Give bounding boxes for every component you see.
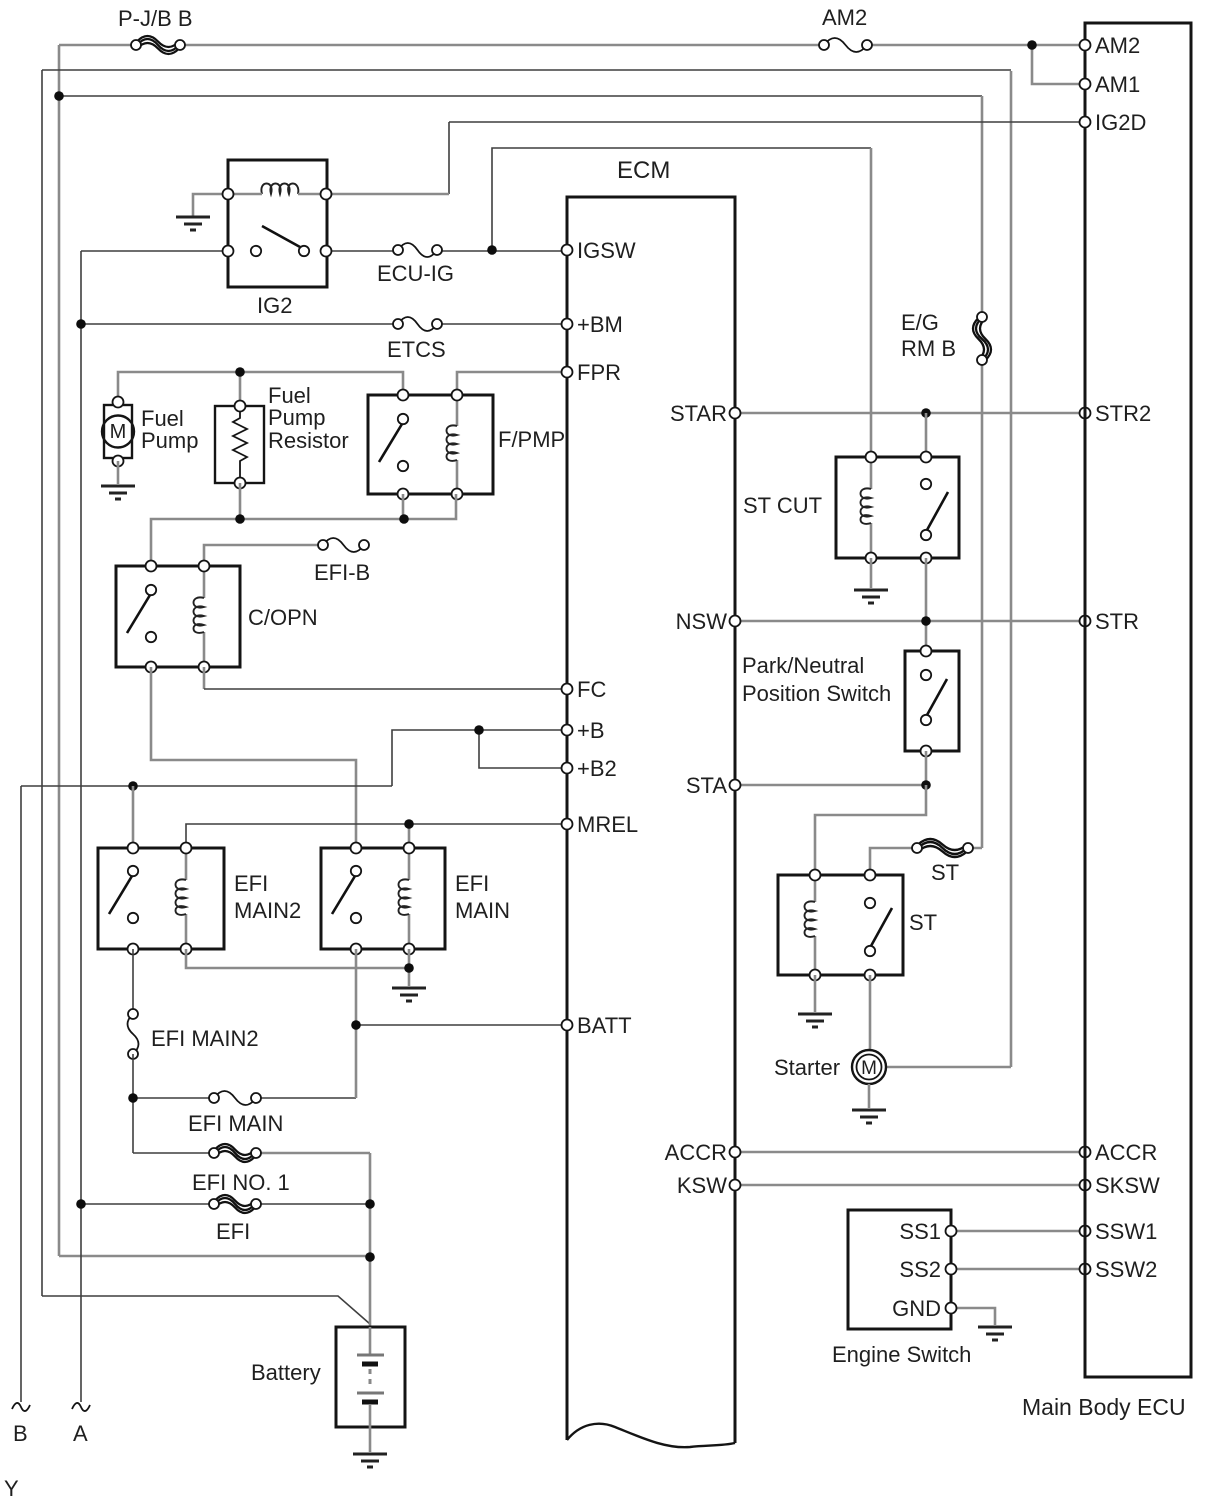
svg-text:MAIN: MAIN <box>455 898 510 923</box>
relay EFI MAIN terminals <box>351 843 362 854</box>
wire: E/G RM B vertical x=982 to ST fuse line <box>981 96 984 848</box>
svg-text:IGSW: IGSW <box>577 238 636 263</box>
junction dot BATT <box>351 1020 361 1030</box>
wire: left vertical x=21 down to break B <box>20 786 22 1402</box>
svg-text:FPR: FPR <box>577 360 621 385</box>
junction dot +B/+B2 <box>474 725 484 735</box>
svg-text:Battery: Battery <box>251 1360 321 1385</box>
terminal FPR <box>562 367 573 378</box>
svg-text:ACCR: ACCR <box>1095 1140 1157 1165</box>
junction dot MREL/EFI MAIN coil <box>404 819 414 829</box>
relay ST switch blade <box>871 908 892 946</box>
fuse EFI MAIN <box>209 1091 261 1105</box>
ECM box with torn bottom edge <box>567 197 735 1443</box>
svg-text:SS1: SS1 <box>899 1219 941 1244</box>
junction dot resistor top on FPR rail <box>235 367 245 377</box>
terminal SKSW <box>1080 1180 1091 1191</box>
wire: EFI-B stub from C/OPN coil top <box>204 545 323 566</box>
svg-text:+BM: +BM <box>577 312 623 337</box>
fuse ECU-IG <box>393 243 442 257</box>
wire: ACCR line y=1152 <box>735 1151 1085 1154</box>
wire: ST CUT switch bottom through NSW junction to P/N switch <box>925 558 928 651</box>
svg-text:ACCR: ACCR <box>665 1140 727 1165</box>
wire: SS2 line <box>951 1268 1085 1271</box>
svg-text:Resistor: Resistor <box>268 428 349 453</box>
wire: left vertical bus x=59 from P-J/B line down to battery line y=1256 <box>58 45 61 1256</box>
terminal SS2 <box>946 1264 957 1275</box>
wire: battery positive vertical x=370 <box>369 1153 372 1327</box>
svg-text:EFI-B: EFI-B <box>314 560 370 585</box>
wire: F/PMP coil top to FPR terminal <box>457 372 567 395</box>
wire: F/PMP switch bottom stub <box>402 494 405 519</box>
relay EFI MAIN2 terminals <box>128 843 139 854</box>
svg-text:SSW2: SSW2 <box>1095 1257 1157 1282</box>
wire: GND lead <box>951 1308 995 1325</box>
svg-text:EFI NO. 1: EFI NO. 1 <box>192 1170 290 1195</box>
wire: ST relay switch top to ST fusible link <box>870 848 982 875</box>
svg-text:Engine Switch: Engine Switch <box>832 1342 971 1367</box>
terminal STR2 <box>1080 408 1091 419</box>
wire: EFI MAIN coil top stub <box>408 824 411 848</box>
relay F/PMP box <box>368 395 493 494</box>
wire: ST switch to starter motor <box>869 975 872 1050</box>
svg-text:Y: Y <box>4 1476 19 1498</box>
wire: x=133 vertical from fuse to EFI NO.1 line <box>132 1054 134 1153</box>
terminal IGSW <box>562 245 573 256</box>
svg-text:STA: STA <box>686 773 727 798</box>
switch Park/Neutral terminals <box>921 646 932 657</box>
relay ST CUT terminals <box>866 452 877 463</box>
svg-text:AM1: AM1 <box>1095 72 1140 97</box>
svg-text:RM B: RM B <box>901 336 956 361</box>
wire: y=519 rail C/OPN switch to F/PMP coil bottom <box>151 494 456 566</box>
junction dot y=1256 on x=370 <box>365 1252 375 1262</box>
wire: STAR line y=413 to STR2 <box>735 412 1085 415</box>
junction dot EFI MAIN2 switch feed <box>128 781 138 791</box>
wire: vertical x=1011 battery-to-starter feed <box>1010 71 1013 1067</box>
wire: +B2 jog from +B line <box>479 730 567 768</box>
relay IG2 coil <box>261 184 298 195</box>
wire: y=71 line from left vertical x=42 to x=1011 <box>42 69 1011 71</box>
svg-text:EFI MAIN: EFI MAIN <box>188 1111 283 1136</box>
relay ST CUT coil <box>870 457 873 558</box>
ground: starter motor <box>852 1110 886 1123</box>
svg-text:E/G: E/G <box>901 310 939 335</box>
junction dot NSW <box>921 616 931 626</box>
junction dot ECU-IG/IGSW <box>487 245 497 255</box>
svg-text:GND: GND <box>892 1296 941 1321</box>
wire: EFI MAIN2 switch bottom to fuse <box>132 949 134 1014</box>
svg-text:C/OPN: C/OPN <box>248 605 318 630</box>
fusible link E/G RM B vertical <box>973 312 991 365</box>
fusible link EFI <box>209 1195 261 1213</box>
terminal SS1 <box>946 1226 957 1237</box>
svg-text:ST CUT: ST CUT <box>743 493 822 518</box>
svg-text:Pump: Pump <box>141 428 198 453</box>
svg-text:AM2: AM2 <box>822 5 867 30</box>
wire: ST coil ground <box>814 975 817 1012</box>
wire: ST CUT switch top stub <box>925 413 928 457</box>
terminal ACCR ECM <box>730 1147 741 1158</box>
fuse AM2 <box>819 38 872 52</box>
junction dot STAR/ST CUT switch <box>921 408 931 418</box>
svg-text:MAIN2: MAIN2 <box>234 898 301 923</box>
svg-text:ECU-IG: ECU-IG <box>377 261 454 286</box>
svg-text:M: M <box>861 1058 877 1079</box>
wire: y=1296 line with diagonal into battery positive <box>42 1296 370 1324</box>
terminal IG2D <box>1080 117 1091 128</box>
wire: fuel pump resistor top stub <box>239 372 242 406</box>
terminal MREL <box>562 819 573 830</box>
ground: battery negative <box>353 1454 387 1467</box>
svg-text:MREL: MREL <box>577 812 638 837</box>
svg-text:STAR: STAR <box>670 401 727 426</box>
svg-text:A: A <box>73 1421 88 1446</box>
svg-text:P-J/B B: P-J/B B <box>118 6 193 31</box>
wire: IGSW net y=148 from vertical x=492 to ST CUT coil vertical x=871 <box>492 148 871 250</box>
terminal SSW1 <box>1080 1226 1091 1237</box>
wire: battery feed line y=1256 <box>59 1255 370 1258</box>
wire: ST CUT coil feed vertical x=871 <box>870 148 873 457</box>
terminal GND <box>946 1303 957 1314</box>
wire: SS1 line <box>951 1230 1085 1233</box>
svg-text:M: M <box>110 421 127 443</box>
relay EFI MAIN switch blade <box>332 876 355 914</box>
svg-text:IG2D: IG2D <box>1095 110 1146 135</box>
terminal STR <box>1080 616 1091 627</box>
relay C/OPN coil <box>203 566 206 667</box>
wire: EFI fuse line y=1204 <box>81 1203 370 1205</box>
svg-text:KSW: KSW <box>677 1173 727 1198</box>
wire: FPR rail y=372 left segment to F/PMP switch top <box>118 372 403 402</box>
switch Park/Neutral blade <box>927 679 947 715</box>
wire: EFI MAIN2 switch top feed x=133 <box>132 786 135 848</box>
wire: IG2 switch line y=251 from left vertical x=81 to ECU-IG fuse and IGSW <box>81 250 567 252</box>
svg-text:Main Body ECU: Main Body ECU <box>1022 1394 1186 1420</box>
wire: ST CUT coil ground <box>870 558 873 588</box>
wire: EFI MAIN switch bottom vertical x=356 through BATT junction <box>355 949 358 1098</box>
terminal AM2 MBE <box>1080 40 1091 51</box>
svg-text:B: B <box>13 1421 28 1446</box>
fuse EFI-B <box>318 538 369 552</box>
wire: C/OPN switch bottom down and over to EFI MAIN switch top <box>151 667 356 848</box>
terminal ACCR Main Body ECU <box>1080 1147 1091 1158</box>
fusible link P-J/B B <box>131 36 185 54</box>
break squiggle A <box>72 1403 90 1411</box>
relay ST terminals <box>810 870 821 881</box>
ground: fuel pump <box>101 486 135 499</box>
fusible link EFI NO. 1 <box>209 1144 261 1162</box>
switch Park/Neutral Position box <box>905 651 959 751</box>
motor Starter <box>852 1050 886 1084</box>
svg-text:SSW1: SSW1 <box>1095 1219 1157 1244</box>
wire: starter motor to x=1011 vertical <box>886 1066 1011 1069</box>
junction dot AM2/AM1 <box>1027 40 1037 50</box>
wire: y=96 line from x=59 junction to E/G RM B vertical <box>59 95 982 97</box>
box Engine Switch <box>848 1210 951 1329</box>
svg-text:EFI: EFI <box>216 1219 250 1244</box>
terminal FC <box>562 684 573 695</box>
wire: IG2 coil output segment y=194 <box>326 193 449 196</box>
svg-text:Park/Neutral: Park/Neutral <box>742 653 864 678</box>
relay ST CUT box <box>836 457 959 558</box>
junction dot EFI line left on x=81 <box>76 1199 86 1209</box>
motor fuel pump <box>102 397 134 467</box>
wire: STA line y=785 <box>735 784 926 787</box>
svg-text:Position Switch: Position Switch <box>742 681 891 706</box>
resistor fuel pump resistor box <box>215 406 264 483</box>
terminal BATT <box>562 1020 573 1031</box>
wire: MREL line y=824 <box>186 824 567 848</box>
terminal STAR <box>730 408 741 419</box>
relay F/PMP switch blade <box>379 424 402 462</box>
wire: C/OPN coil bottom to FC line <box>203 667 206 689</box>
wire: starter motor ground <box>868 1084 871 1108</box>
svg-text:SS2: SS2 <box>899 1257 941 1282</box>
ground: EFI MAIN relay coils <box>392 988 426 1001</box>
terminal KSW <box>730 1180 741 1191</box>
svg-text:Pump: Pump <box>268 405 325 430</box>
wire: FC line y=689 <box>204 688 567 690</box>
wire: KSW line y=1186 <box>735 1184 1085 1187</box>
relay C/OPN box <box>116 566 240 667</box>
relay IG2 switch blade <box>262 226 300 247</box>
terminal NSW <box>730 616 741 627</box>
battery cells <box>357 1327 384 1452</box>
ground: ST CUT coil <box>854 590 888 603</box>
ground: ST coil <box>798 1014 832 1027</box>
svg-text:SKSW: SKSW <box>1095 1173 1160 1198</box>
terminal +B2 <box>562 763 573 774</box>
relay EFI MAIN coil <box>408 848 411 949</box>
junction dot EFI MAIN line left <box>128 1093 138 1103</box>
svg-text:AM2: AM2 <box>1095 33 1140 58</box>
relay ST box <box>778 875 903 975</box>
wire: P-J/B B feed line y=45 from left vertical to AM2 fuse and Main Body ECU AM2 <box>59 44 1085 47</box>
junction dot EFI line right on x=370 <box>365 1199 375 1209</box>
terminal STA <box>730 780 741 791</box>
svg-text:BATT: BATT <box>577 1013 632 1038</box>
svg-text:ETCS: ETCS <box>387 337 446 362</box>
break squiggle B <box>12 1403 30 1411</box>
terminal AM1 <box>1080 79 1091 90</box>
wire: STA jog to ST relay coil <box>815 785 926 875</box>
svg-text:NSW: NSW <box>676 609 728 634</box>
svg-text:Starter: Starter <box>774 1055 840 1080</box>
ground: IG2 relay coil <box>176 217 210 230</box>
junction dot resistor bottom <box>235 514 245 524</box>
box Main Body ECU <box>1085 23 1191 1377</box>
relay EFI MAIN box <box>321 848 445 949</box>
junction dot ETCS tap on x=81 <box>76 319 86 329</box>
wire: left vertical x=81 from IG2 switch line down to break A <box>80 251 82 1402</box>
wire: fuel pump to ground <box>117 461 120 484</box>
wire: IG2D line y=122 to Main Body ECU <box>449 122 1085 194</box>
wire: ETCS fuse line y=324 to +BM <box>81 323 567 325</box>
relay ST coil <box>814 875 817 975</box>
wire: AM1 jog from junction on AM2 line <box>1032 45 1085 84</box>
wire: EFI NO.1 line y=1153 <box>133 1152 214 1154</box>
wire: EFI MAIN fuse line y=1098 <box>133 1097 356 1099</box>
relay EFI MAIN2 coil <box>185 848 188 949</box>
svg-text:EFI: EFI <box>234 871 268 896</box>
svg-text:STR: STR <box>1095 609 1139 634</box>
svg-text:EFI: EFI <box>455 871 489 896</box>
wire: coil grounds link y=968 <box>186 949 409 986</box>
fuse ETCS <box>393 317 442 331</box>
relay F/PMP terminals <box>398 390 409 401</box>
junction dot F/PMP switch bottom <box>399 514 409 524</box>
wire: +B line y=730 with drop to y=786 rail <box>392 730 567 786</box>
relay C/OPN terminals <box>146 561 157 572</box>
svg-text:F/PMP: F/PMP <box>498 427 565 452</box>
fusible link ST <box>912 839 973 857</box>
wire: NSW line y=621 to STR <box>735 620 1085 623</box>
terminal +B <box>562 725 573 736</box>
relay IG2 box <box>228 160 327 287</box>
relay EFI MAIN2 switch blade <box>109 876 132 914</box>
terminal SSW2 <box>1080 1264 1091 1275</box>
relay F/PMP coil <box>456 395 459 494</box>
battery box <box>336 1327 405 1427</box>
wire: IG2 coil ground lead <box>193 194 228 216</box>
wire: P/N switch bottom to STA line <box>925 751 928 785</box>
wire: BATT line y=1025 <box>356 1024 567 1026</box>
svg-text:FC: FC <box>577 677 606 702</box>
svg-text:+B: +B <box>577 718 605 743</box>
svg-text:IG2: IG2 <box>257 293 292 318</box>
svg-text:ST: ST <box>931 860 959 885</box>
wire: left vertical x=42 down to y=1296 <box>41 70 43 1296</box>
junction dot STA <box>921 780 931 790</box>
svg-text:ECM: ECM <box>617 157 670 184</box>
junction dot coil ground <box>404 963 414 973</box>
junction dot x=59 y=96 <box>54 91 64 101</box>
svg-text:+B2: +B2 <box>577 756 617 781</box>
relay C/OPN switch blade <box>127 595 150 633</box>
svg-text:STR2: STR2 <box>1095 401 1151 426</box>
ground: engine switch <box>978 1327 1012 1340</box>
wire: resistor bottom stub <box>239 483 242 519</box>
fuse EFI MAIN2 vertical <box>128 1009 139 1059</box>
relay IG2 terminals <box>223 189 234 200</box>
wire: y=786 rail from left vertical x=21 <box>21 785 392 787</box>
svg-text:EFI MAIN2: EFI MAIN2 <box>151 1026 259 1051</box>
relay ST CUT switch blade <box>927 492 948 530</box>
relay EFI MAIN2 box <box>98 848 224 949</box>
svg-text:ST: ST <box>909 910 937 935</box>
resistor zigzag <box>233 406 247 483</box>
terminal +BM <box>562 319 573 330</box>
